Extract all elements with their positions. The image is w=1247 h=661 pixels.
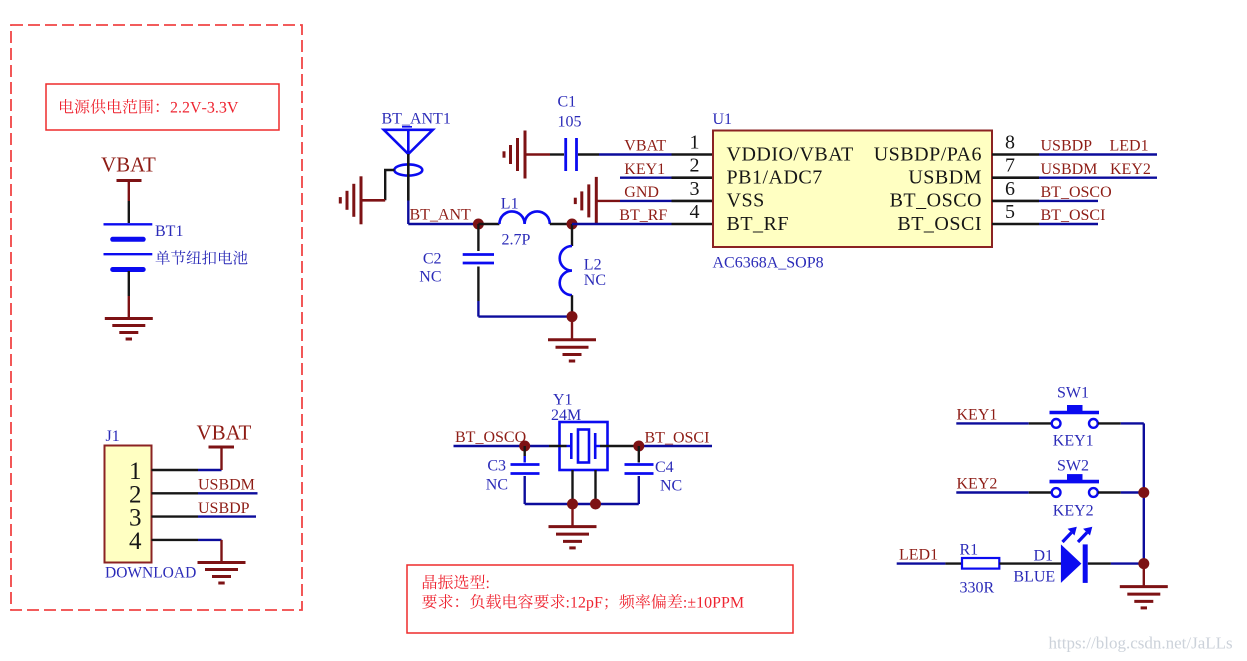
net BT_OSCO (pin6) [992, 184, 1112, 201]
svg-text:AC6368A_SOP8: AC6368A_SOP8 [713, 255, 824, 272]
net BT_RF wire to pin4 [572, 207, 713, 224]
svg-text:BT_OSCI: BT_OSCI [1041, 207, 1106, 224]
capacitor C2 [419, 224, 494, 317]
svg-text:KEY1: KEY1 [957, 407, 998, 424]
svg-text:VBAT: VBAT [197, 421, 252, 445]
net BT_ANT [408, 207, 478, 224]
switch SW1 [1050, 385, 1100, 450]
svg-text:VBAT: VBAT [101, 153, 156, 177]
svg-text:R1: R1 [960, 542, 979, 559]
svg-text:BT_RF: BT_RF [619, 207, 667, 224]
svg-text:USBDM: USBDM [908, 167, 982, 189]
ground (GND pin, rotated) [575, 177, 596, 225]
dashed outline box [11, 25, 302, 610]
svg-text:1: 1 [690, 132, 700, 154]
net LED1 [897, 547, 962, 564]
node junction 2 [567, 219, 578, 230]
svg-text:NC: NC [419, 269, 441, 286]
svg-text:C4: C4 [655, 459, 674, 476]
capacitor C1 [558, 94, 582, 172]
net BT_OSCI (crystal right) [600, 430, 712, 447]
node junction crystal left [519, 441, 530, 452]
svg-text:4: 4 [690, 201, 700, 223]
svg-text:DOWNLOAD: DOWNLOAD [105, 565, 196, 582]
LED D1 BLUE [1013, 527, 1092, 586]
inductor L2 [560, 224, 606, 317]
svg-text:BT_OSCI: BT_OSCI [897, 213, 982, 235]
svg-text:LED1: LED1 [1110, 138, 1149, 155]
svg-text:SW1: SW1 [1057, 385, 1089, 402]
wire [128, 271, 130, 318]
wire pin1 [152, 469, 222, 471]
svg-text:8: 8 [1005, 132, 1015, 154]
wire pin4 [152, 540, 222, 562]
svg-text:NC: NC [584, 272, 606, 289]
svg-text:VBAT: VBAT [624, 138, 666, 155]
svg-text:KEY2: KEY2 [1053, 503, 1094, 520]
node junction 3 [567, 311, 578, 322]
power VBAT (J1) [197, 421, 252, 471]
battery BT1 [104, 223, 248, 270]
svg-text:C2: C2 [423, 251, 442, 268]
svg-text:C3: C3 [487, 458, 506, 475]
svg-text:KEY1: KEY1 [1053, 433, 1094, 450]
net BT_OSCI (pin5) [992, 207, 1105, 224]
connector J1 [105, 428, 197, 582]
wire pin3 / net USBDP [152, 500, 257, 517]
wire ground to C1 [525, 153, 564, 155]
wire to ground [571, 317, 573, 339]
net USBDM / KEY2 (pin7) [992, 161, 1157, 178]
svg-text:BT_OSCI: BT_OSCI [645, 430, 710, 447]
ground (antenna, rotated) [340, 176, 361, 224]
node junction crystal right [633, 441, 644, 452]
net KEY1 (switch row 1) [956, 407, 1051, 424]
wire SW1 to bus [1098, 422, 1144, 424]
pin 5 number [1005, 201, 1015, 223]
net GND wire to pin3 [596, 184, 713, 201]
pin 2 number [690, 155, 700, 177]
capacitor C4 [625, 446, 683, 504]
svg-text:D1: D1 [1034, 548, 1054, 565]
ground (right bus) [1120, 587, 1168, 608]
svg-text:BT_RF: BT_RF [727, 213, 790, 235]
watermark [1049, 634, 1233, 653]
svg-text:VSS: VSS [727, 190, 765, 212]
svg-text:2.7P: 2.7P [502, 232, 531, 249]
power VBAT (battery) [101, 153, 156, 202]
wire R1 to D1 [999, 562, 1061, 564]
wire to ground (crystal) [571, 504, 573, 526]
wire right bus vertical [1143, 423, 1145, 563]
svg-text:BT_ANT1: BT_ANT1 [382, 111, 451, 128]
svg-text:KEY2: KEY2 [1110, 161, 1151, 178]
wire [128, 201, 130, 223]
node junction 1 [473, 219, 484, 230]
net KEY1 wire to pin2 [620, 161, 713, 178]
wire to ground (right bus) [1143, 564, 1145, 586]
svg-text:2: 2 [690, 155, 700, 177]
svg-text:USBDP/PA6: USBDP/PA6 [874, 143, 982, 165]
net USBDP / LED1 (pin8) [992, 138, 1157, 155]
pin 3 number [690, 178, 700, 200]
svg-text:KEY2: KEY2 [957, 476, 998, 493]
pin 7 number [1005, 155, 1015, 177]
pin 8 number [1005, 132, 1015, 154]
svg-text:KEY1: KEY1 [624, 161, 665, 178]
net BT_OSCO (crystal left) [454, 429, 567, 446]
svg-text:J1: J1 [106, 428, 120, 445]
ground (crystal) [549, 527, 597, 548]
note box: power supply range [46, 84, 279, 130]
node junction bus SW2 [1138, 487, 1149, 498]
antenna BT_ANT1 [382, 111, 451, 176]
op-chip U1 AC6368A_SOP8 [713, 111, 993, 272]
ground (J1 pin4) [198, 563, 246, 584]
svg-text:BT1: BT1 [155, 223, 183, 240]
switch SW2 [1050, 458, 1100, 520]
svg-text:330R: 330R [960, 580, 995, 597]
capacitor C3 [486, 446, 540, 504]
svg-text:BLUE: BLUE [1013, 569, 1055, 586]
svg-text:SW2: SW2 [1057, 458, 1089, 475]
svg-text:BT_ANT: BT_ANT [410, 207, 472, 224]
node junction bottom 1 [567, 499, 578, 510]
wire SW2 to bus [1098, 491, 1144, 493]
svg-text:BT_OSCO: BT_OSCO [455, 429, 526, 446]
node junction bus LED [1138, 558, 1149, 569]
wire crystal bottom pins [573, 470, 596, 504]
svg-text:U1: U1 [713, 111, 733, 128]
svg-text:GND: GND [624, 184, 659, 201]
pin 6 number [1005, 178, 1015, 200]
wire crystal bottom bus [525, 503, 639, 505]
svg-text:Y1: Y1 [553, 392, 573, 409]
svg-text:PB1/ADC7: PB1/ADC7 [727, 167, 823, 189]
svg-text:4: 4 [129, 528, 142, 555]
wire bottom of pi filter [478, 315, 572, 317]
wire antenna to ground [361, 170, 395, 200]
svg-text:https://blog.csdn.net/JaLLs: https://blog.csdn.net/JaLLs [1049, 634, 1233, 653]
svg-text:6: 6 [1005, 178, 1015, 200]
svg-text:L1: L1 [501, 196, 519, 213]
pin 4 number [690, 201, 700, 223]
svg-text:USBDP: USBDP [1041, 138, 1093, 155]
note box: crystal selection [407, 565, 793, 633]
ground (pi filter) [548, 340, 596, 361]
wire D1 to bus [1088, 562, 1144, 564]
crystal Y1 [551, 392, 608, 471]
svg-text:USBDM: USBDM [1041, 161, 1098, 178]
svg-text:L2: L2 [584, 257, 602, 274]
svg-text:USBDM: USBDM [198, 477, 255, 494]
ground (battery) [105, 319, 153, 340]
svg-text:BT_OSCO: BT_OSCO [890, 190, 982, 212]
wire antenna stem [407, 154, 410, 224]
pin 1 number [690, 132, 700, 154]
node junction bottom 2 [590, 499, 601, 510]
inductor L1 [478, 196, 572, 249]
svg-text:LED1: LED1 [899, 547, 938, 564]
svg-text:USBDP: USBDP [198, 500, 250, 517]
ground (C1, rotated) [504, 131, 525, 179]
resistor R1 330R [960, 542, 1000, 597]
svg-text:NC: NC [660, 478, 682, 495]
svg-text:BT_OSCO: BT_OSCO [1041, 184, 1112, 201]
svg-text:NC: NC [486, 477, 508, 494]
net VBAT wire to pin1 [578, 138, 713, 155]
svg-text:7: 7 [1005, 155, 1015, 177]
svg-text:VDDIO/VBAT: VDDIO/VBAT [727, 143, 854, 165]
svg-text:105: 105 [558, 113, 582, 130]
wire pin2 / net USBDM [152, 477, 258, 494]
net KEY2 (switch row 2) [956, 476, 1051, 493]
svg-text:C1: C1 [558, 94, 577, 111]
svg-text:3: 3 [690, 178, 700, 200]
svg-text:5: 5 [1005, 201, 1015, 223]
